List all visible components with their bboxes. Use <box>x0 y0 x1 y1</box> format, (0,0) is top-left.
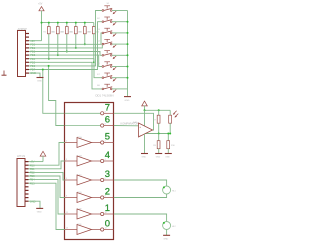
wire JP2 pin7 to gate IC1F <box>29 183 65 229</box>
connector JP2 lower header <box>17 154 29 207</box>
wire PD6 row to switch S1 <box>29 11 102 66</box>
wire JP2 pin6 to gate IC1E <box>29 180 65 214</box>
ground GND1 under JP1 <box>37 78 44 83</box>
svg-text:6: 6 <box>105 178 106 180</box>
gate IC1F <box>65 224 115 235</box>
node rail S4 <box>127 43 129 45</box>
ground far-left frame <box>2 71 7 76</box>
pin bubble 7 <box>101 112 114 115</box>
svg-text:11: 11 <box>66 212 68 214</box>
resistor R4 <box>70 22 81 49</box>
resistor R10 <box>167 133 176 154</box>
resistor R1 <box>43 22 54 60</box>
svg-text:GND: GND <box>165 157 170 159</box>
svg-text:GND: GND <box>142 157 147 159</box>
wire pin 7 to comparator output <box>114 113 154 130</box>
pin bubble 6 <box>101 124 114 127</box>
wire PD4 row to switch S7 <box>29 59 102 78</box>
resistor R5 <box>79 22 90 46</box>
switch S6 <box>97 62 128 71</box>
wire PD1 row to switch S4 <box>29 44 102 48</box>
svg-text:8: 8 <box>105 196 106 198</box>
resistor R7 <box>153 110 160 134</box>
IC DD1 74LS06N box <box>65 94 114 240</box>
wire pin 6 to comparator input <box>114 125 139 127</box>
svg-text:1: 1 <box>66 141 67 143</box>
node rail S6 <box>127 66 129 68</box>
svg-text:3: 3 <box>66 159 67 161</box>
resistor R3 <box>61 22 72 53</box>
svg-text:9: 9 <box>66 196 67 198</box>
LDR R8 light sensor <box>169 110 179 134</box>
wire pin 1 to lamp HL2 <box>114 214 167 222</box>
wire op-amp V+ stub <box>144 110 146 126</box>
wire PD7 row to switch S2 <box>29 22 102 70</box>
svg-text:GND: GND <box>156 157 161 159</box>
supply +5V arrow VCC2 at JP2 <box>40 151 46 161</box>
switch S5 <box>97 51 128 60</box>
resistor R9 <box>153 134 160 154</box>
wire lamp HL1 return to pin 2 <box>114 194 167 198</box>
wire PD0 row to switch S3 <box>29 33 102 44</box>
wire VCC bus top <box>42 22 94 24</box>
wire JP2 pin2 to gate IC1A <box>29 143 65 166</box>
supply +5V arrow VCC3 comparator <box>142 101 148 110</box>
switch S7 <box>97 73 128 82</box>
ground GND7 under JP2 <box>36 208 43 213</box>
wire +5V pin row <box>29 40 42 42</box>
svg-text:GND: GND <box>37 211 42 213</box>
lamp HL1 <box>163 186 177 194</box>
wire PD6 branch to IC pin 6 <box>49 66 65 126</box>
svg-text:LPT-IN: LPT-IN <box>17 154 25 158</box>
wire +5V JP2 row <box>29 161 44 163</box>
supply +5V arrow VCC1 top-left <box>38 3 44 11</box>
gate IC1E <box>65 208 115 219</box>
wire pin 3 to lamp HL1 <box>114 180 167 186</box>
svg-text:GND: GND <box>125 100 130 102</box>
switch S8 <box>97 84 128 93</box>
wire JP2 pin4 to gate IC1C <box>29 172 65 180</box>
ground GND4 under R9 <box>155 154 162 159</box>
wire inside to pin 7 <box>65 112 101 114</box>
wire lamp HL2 to ground <box>166 230 168 236</box>
gate IC1A <box>65 136 115 148</box>
wire JP2 pin5 to gate IC1D <box>29 176 65 198</box>
wire ground rail right of switches <box>127 11 129 97</box>
svg-text:+: + <box>139 125 141 129</box>
switch S3 <box>97 28 128 37</box>
svg-text:DD1 74LS06N: DD1 74LS06N <box>95 94 113 98</box>
ground GND5 under R10 <box>165 154 172 159</box>
switch S4 <box>97 39 128 48</box>
svg-text:12: 12 <box>105 228 107 230</box>
node VCC rail joint <box>144 109 146 111</box>
node rail S5 <box>127 54 129 56</box>
svg-text:4: 4 <box>105 159 106 161</box>
gate IC1D <box>65 192 115 203</box>
svg-text:10: 10 <box>105 212 107 214</box>
op-amp DA1 comparator <box>133 121 153 153</box>
svg-text:GND: GND <box>37 81 42 83</box>
lamp HL2 <box>163 222 177 230</box>
switch S2 <box>97 17 128 26</box>
svg-text:5: 5 <box>66 178 67 180</box>
node rail S2 <box>127 21 129 23</box>
wire JP2 pin3 to gate IC1B <box>29 161 65 169</box>
wire PD3 row to switch S6 <box>29 55 102 66</box>
wire inside to pin 6 <box>65 125 101 127</box>
wire GND from JP1 <box>29 73 40 77</box>
ground GND6 under HL2 <box>163 235 170 240</box>
node R7 top <box>158 109 160 111</box>
ground GND3 op-amp <box>141 154 148 159</box>
svg-text:2: 2 <box>105 141 106 143</box>
resistor R2 <box>52 22 63 57</box>
node rail S7 <box>127 77 129 79</box>
wire VCC stem <box>41 11 43 41</box>
resistor R6 <box>88 23 99 64</box>
node junction bus-stem <box>41 22 43 24</box>
ground GND2 rail bottom <box>124 97 131 103</box>
gate IC1B <box>65 155 115 166</box>
svg-text:8: 8 <box>105 124 106 126</box>
connector JP1 programming header <box>18 27 30 77</box>
svg-text:-: - <box>140 133 141 137</box>
gate IC1C <box>65 174 115 185</box>
svg-text:GND: GND <box>163 239 168 241</box>
svg-text:13: 13 <box>66 228 68 230</box>
svg-text:+5V: +5V <box>38 3 43 6</box>
wire PD5 row to switch S8 <box>29 62 102 89</box>
switch S1 <box>102 3 128 14</box>
wire middle divider rail <box>140 133 170 135</box>
wire GND JP2 <box>29 201 41 208</box>
svg-text:9: 9 <box>105 112 106 114</box>
wire PD7 branch to IC pin 7 <box>43 70 65 114</box>
wire comparator top rail <box>145 109 171 111</box>
node rail S3 <box>127 32 129 34</box>
wire PD2 row to switch S5 <box>29 52 102 56</box>
